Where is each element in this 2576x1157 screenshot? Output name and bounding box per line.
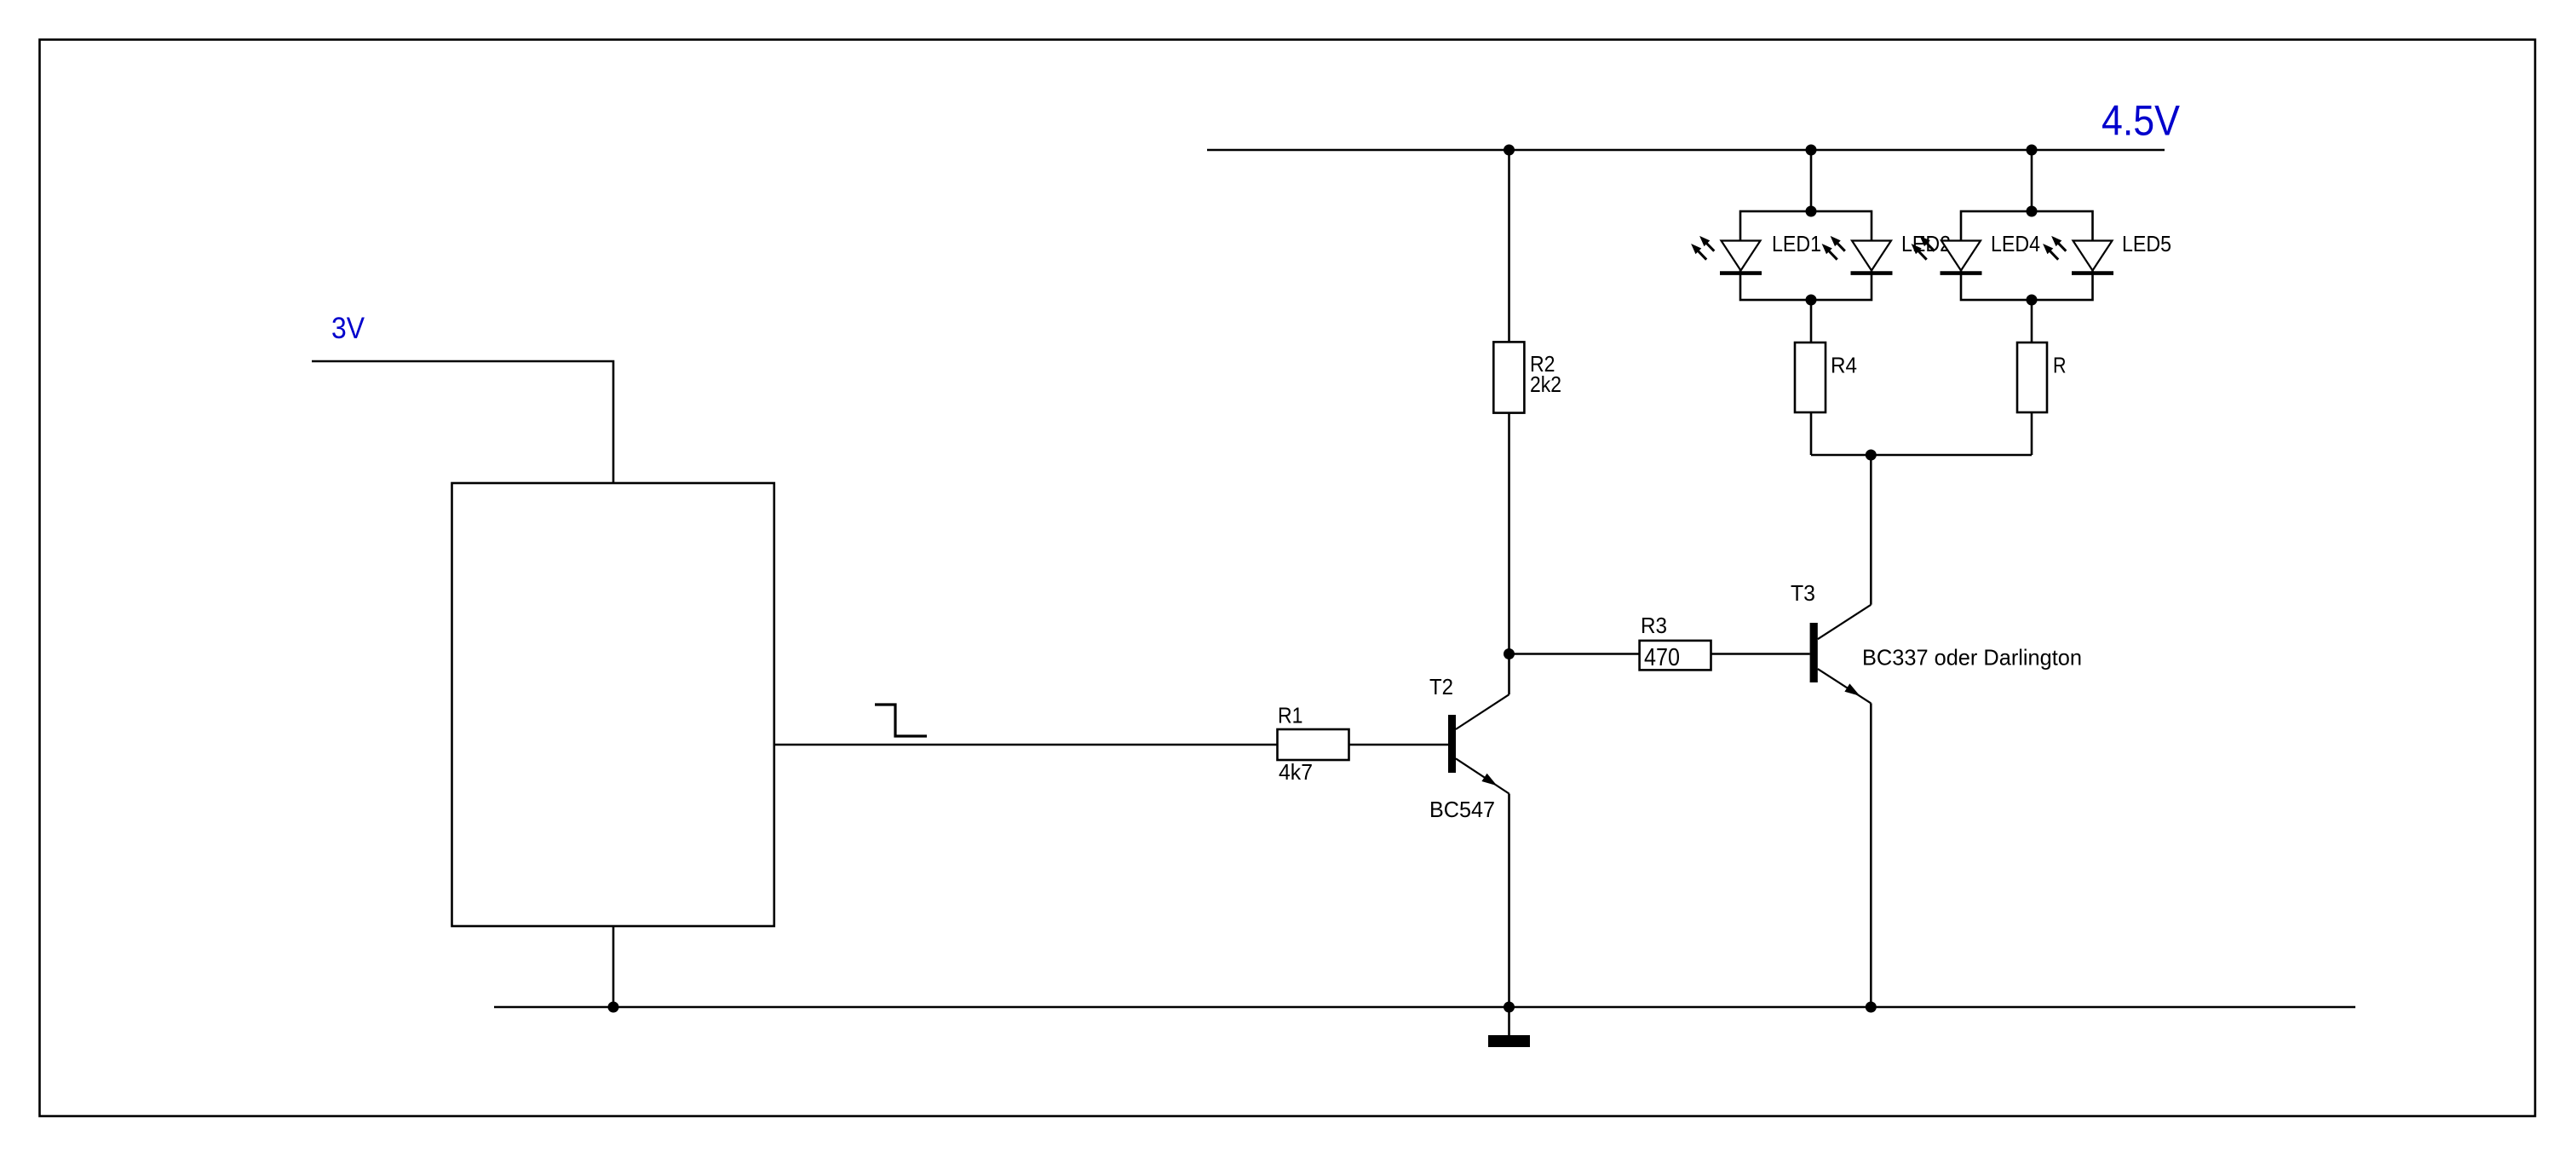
wire R4 to common node xyxy=(1810,412,1813,455)
signal source block xyxy=(452,483,774,926)
svg-text:R: R xyxy=(2053,353,2067,378)
junction LED box2 top xyxy=(2027,206,2038,217)
svg-text:T2: T2 xyxy=(1429,674,1453,699)
resistor R xyxy=(2017,342,2047,412)
power rail 4.5V wire xyxy=(1207,149,2165,152)
svg-text:3V: 3V xyxy=(331,312,365,345)
junction LED box1 bottom xyxy=(1806,295,1817,306)
junction rail R2 xyxy=(1504,145,1515,156)
wire R2 to node xyxy=(1508,413,1510,654)
junction common node to T3 collector xyxy=(1866,450,1877,461)
junction rail LED group 2 xyxy=(2027,145,2038,156)
ground xyxy=(1488,1007,1530,1047)
wire R3 to T3 base xyxy=(1711,653,1810,655)
wire block output to R1 xyxy=(774,744,1278,746)
LED LED2 xyxy=(1822,236,1893,273)
pulse waveform symbol xyxy=(875,705,927,736)
transistor T3 xyxy=(1810,605,1872,704)
junction LED box1 top xyxy=(1806,206,1817,217)
wire T2 collector xyxy=(1508,654,1510,695)
wire T3 emitter to ground xyxy=(1870,703,1872,1007)
wire block bottom to ground rail xyxy=(612,926,615,1007)
junction T3 emitter ground xyxy=(1866,1002,1877,1013)
svg-text:LED4: LED4 xyxy=(1991,231,2040,256)
resistor R4 xyxy=(1795,342,1826,412)
LED parallel box 2 xyxy=(1961,211,2093,300)
LED LED5 xyxy=(2043,236,2113,273)
wire LED box2 to R xyxy=(2031,300,2033,342)
wire T2 emitter to ground xyxy=(1508,794,1510,1008)
wire R1 to T2 base xyxy=(1349,744,1449,746)
LED parallel box 1 xyxy=(1740,211,1872,300)
wire rail to R2 xyxy=(1508,150,1510,342)
transistor T2 xyxy=(1448,694,1509,793)
svg-text:R3: R3 xyxy=(1641,613,1667,638)
junction block-ground xyxy=(608,1002,619,1013)
junction T2 emitter ground xyxy=(1504,1002,1515,1013)
LED LED4 xyxy=(1912,236,1982,273)
wire R to common node xyxy=(2031,412,2033,455)
resistor R2 xyxy=(1493,342,1524,412)
wire rail to LED box 2 xyxy=(2031,150,2033,211)
LED LED1 xyxy=(1691,236,1762,273)
wire T3 collector xyxy=(1870,455,1872,605)
svg-text:LED5: LED5 xyxy=(2122,231,2171,256)
svg-text:470: 470 xyxy=(1644,644,1680,671)
junction LED box2 bottom xyxy=(2027,295,2038,306)
svg-text:4k7: 4k7 xyxy=(1279,759,1313,785)
svg-text:4.5V: 4.5V xyxy=(2102,97,2181,145)
svg-text:T3: T3 xyxy=(1791,580,1815,606)
wire node to R3 xyxy=(1509,653,1641,655)
svg-text:BC337 oder Darlington: BC337 oder Darlington xyxy=(1862,644,2082,670)
wire rail to LED box 1 xyxy=(1810,150,1813,211)
svg-text:LED1: LED1 xyxy=(1772,231,1821,256)
resistor R1 xyxy=(1278,729,1349,760)
wire 3V lead xyxy=(312,361,613,483)
svg-text:R4: R4 xyxy=(1831,353,1857,378)
svg-text:BC547: BC547 xyxy=(1429,797,1495,822)
wire common node horizontal xyxy=(1811,454,2032,457)
junction node R2/T2/R3 xyxy=(1504,648,1515,659)
ground rail wire xyxy=(494,1006,2355,1009)
junction rail LED group 1 xyxy=(1806,145,1817,156)
wire LED box1 to R4 xyxy=(1810,300,1813,342)
svg-text:2k2: 2k2 xyxy=(1530,371,1561,397)
svg-text:R1: R1 xyxy=(1278,703,1303,728)
resistor R3 xyxy=(1640,641,1711,671)
